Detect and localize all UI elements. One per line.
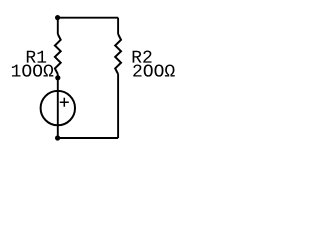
node mid-left junction dot bbox=[55, 75, 60, 80]
voltage source plus sign bbox=[60, 98, 69, 107]
voltage source V1 circle bbox=[41, 91, 75, 125]
label R2 bbox=[133, 51, 152, 63]
label 200 ohm value bbox=[133, 64, 174, 76]
label R1 bbox=[27, 51, 46, 63]
resistor R2 bbox=[115, 34, 121, 74]
resistor R1 bbox=[55, 34, 61, 74]
wire left branch upper lead bbox=[57, 18, 59, 34]
wire top bbox=[58, 17, 119, 19]
wire left branch through source bbox=[57, 74, 59, 138]
node bottom-left junction dot bbox=[55, 135, 60, 140]
label 100 ohm value bbox=[12, 64, 53, 76]
wire right branch upper lead bbox=[117, 18, 119, 34]
wire bottom bbox=[58, 137, 119, 139]
node top-left junction dot bbox=[55, 15, 60, 20]
wire right branch lower lead bbox=[117, 74, 119, 138]
